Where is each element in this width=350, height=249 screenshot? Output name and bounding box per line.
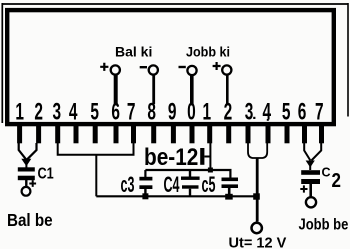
terminal circle Bal ki + (111, 65, 120, 74)
svg-text:c3: c3 (121, 172, 135, 197)
capacitor C3 bottom stub (144, 189, 146, 196)
svg-text:7: 7 (127, 98, 136, 126)
speck between pins 13 and 14 (253, 117, 255, 119)
svg-text:6: 6 (298, 98, 307, 126)
capacitor C3 top stub (144, 170, 146, 177)
wire C2 to Jobb be terminal (309, 184, 312, 197)
svg-text:2: 2 (332, 169, 341, 192)
terminal circle Jobb be (306, 197, 316, 207)
svg-text:2: 2 (34, 98, 43, 126)
bar symbol after be-12 (200, 148, 204, 165)
svg-text:Bal be: Bal be (7, 211, 53, 230)
minus sign (Bal ki -, pin 8) (140, 66, 147, 68)
tick from bar to pin 11 wire (204, 156, 210, 158)
IC body U1 outline (7, 10, 334, 124)
svg-text:4: 4 (69, 98, 78, 126)
capacitor C1 plates (18, 167, 35, 171)
wire funnel pins 1+2 to C1 (19, 143, 37, 159)
outer frame left line (1, 3, 3, 123)
svg-text:Jobb be: Jobb be (298, 217, 348, 234)
svg-text:c5: c5 (202, 172, 216, 197)
svg-text:3: 3 (53, 98, 62, 126)
bottom bus wire (96, 195, 256, 197)
wire pin 11 down to top bus (209, 143, 211, 170)
svg-text:C4: C4 (164, 172, 180, 197)
capacitor C4 top stub (189, 170, 191, 177)
wire funnel pins 16+17 to C2 (304, 143, 321, 161)
junction C3/bottom bus (142, 193, 148, 199)
capacitor C2 plates (301, 170, 320, 175)
svg-text:5: 5 (90, 98, 99, 126)
svg-text:C: C (322, 166, 331, 180)
outer frame top line (2, 3, 348, 5)
terminal circle Jobb ki - (187, 66, 196, 75)
wire Jobb ki - to pin 10 (190, 75, 194, 104)
wire Bal ki - to pin 8 (152, 75, 155, 105)
wire funnel pins 13+14 to supply (248, 143, 267, 158)
capacitor C4 plates (181, 177, 200, 180)
C2 polarity plus (300, 185, 307, 192)
minus sign (Jobb ki -, pin 10) (179, 66, 186, 68)
svg-text:3: 3 (245, 98, 254, 126)
svg-text:1: 1 (203, 98, 212, 126)
svg-text:4: 4 (263, 98, 272, 126)
plus sign (Jobb ki +, pin 12) (213, 62, 221, 70)
capacitor C5 bottom stub (228, 188, 231, 196)
wire U pins 3 and 7 joined (58, 143, 134, 155)
svg-text:be-12: be-12 (144, 142, 198, 170)
terminal circle Bal ki - (149, 65, 158, 74)
plus sign (Bal ki +, pin 6) (100, 63, 108, 71)
capacitor C3 plates (139, 177, 152, 181)
svg-text:5: 5 (282, 98, 291, 126)
svg-text:C1: C1 (38, 165, 54, 182)
wire center tap down to bottom bus (95, 155, 97, 197)
outer frame right line (347, 3, 349, 117)
supply wire down (256, 158, 259, 222)
pin numbers 1-17 (15, 98, 323, 126)
junction pin11/top bus (208, 168, 213, 173)
svg-text:Jobb ki: Jobb ki (186, 44, 230, 60)
svg-text:9: 9 (168, 98, 177, 126)
svg-text:1: 1 (15, 98, 24, 126)
top bus wire from C3 to C5 (145, 170, 230, 178)
wire Bal ki + to pin 6 (114, 75, 118, 105)
polarity arrowhead above C1 (21, 159, 31, 166)
wire Jobb ki + to pin 12 (226, 75, 229, 105)
junction C5/bottom bus (225, 194, 233, 200)
capacitor C4 bottom stub (189, 189, 191, 196)
terminal circle Bal be (22, 187, 31, 196)
svg-text:Ut= 12 V: Ut= 12 V (229, 235, 287, 249)
terminal circle Jobb ki + (222, 65, 231, 74)
polarity arrowhead above C2 (306, 161, 315, 168)
speck at pin 14 foot (267, 119, 269, 121)
svg-text:Bal ki: Bal ki (115, 44, 152, 60)
C1 polarity plus (29, 180, 36, 187)
terminal circle Ut (252, 223, 262, 233)
pin bars 1-17 (17, 126, 324, 143)
capacitor C5 plates (222, 178, 239, 182)
junction supply/bottom bus (253, 193, 260, 199)
wire C1 to Bal be terminal (25, 180, 27, 187)
svg-text:7: 7 (315, 98, 324, 126)
